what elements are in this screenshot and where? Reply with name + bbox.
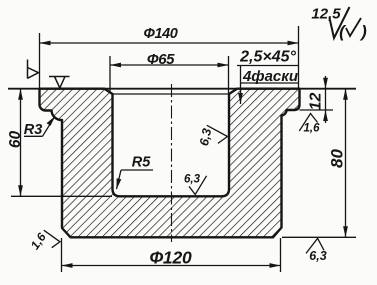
svg-text:Ф140: Ф140 [144, 26, 178, 42]
dim 80 line [345, 89, 347, 238]
dim Ф140 extension left [39, 33, 41, 88]
svg-text:80: 80 [328, 149, 347, 168]
dim 80 bottom extension [282, 236, 356, 238]
radius note R5 leader [117, 170, 122, 189]
radius note R5 arrow [117, 178, 122, 189]
roughness 6,3 on recess bottom: check [189, 176, 207, 195]
roughness 6,3 bottom-right: check [306, 238, 324, 253]
dim 12 extension (flange underside) [300, 109, 334, 111]
chamfer note leader arrow [238, 93, 243, 104]
dim 80 arrow bottom [343, 226, 348, 237]
roughness 1,6 bottom-left chamfer: check [44, 230, 60, 248]
dim Ф65 line [110, 64, 229, 66]
roughness 1,6 under flange right: check [299, 114, 317, 132]
dim 60 arrow top [18, 89, 23, 100]
bore chamfer edge line [113, 93, 230, 95]
dim Ф140 arrow left [40, 41, 51, 46]
svg-text:6,3: 6,3 [309, 249, 326, 263]
centerline (axis) [171, 84, 173, 242]
svg-text:1,6: 1,6 [304, 123, 321, 135]
chamfer note underline [241, 82, 299, 84]
radius note R3 arrow [47, 116, 56, 126]
dim Ф120 extension left [61, 238, 63, 272]
dim 60 line [20, 89, 22, 197]
roughness 6,3 on bore wall: check [207, 125, 228, 143]
svg-text:6,3: 6,3 [197, 127, 214, 147]
section body (hatched cup cross-section) [40, 89, 300, 238]
svg-text:R3: R3 [24, 122, 43, 138]
svg-text:): ) [359, 22, 367, 41]
dim Ф65 extension right [228, 56, 230, 94]
recess bottom extension line (60 dim) [11, 195, 112, 197]
radius note R3 shelf [24, 135, 43, 137]
dim 12 line [325, 76, 327, 123]
dim Ф120 line [62, 265, 281, 267]
dim Ф140 arrow right [288, 41, 299, 46]
svg-text:6,3: 6,3 [184, 173, 201, 185]
svg-text:60: 60 [7, 131, 24, 149]
dim Ф120 arrow left [62, 263, 73, 268]
radius note R3 leader [43, 118, 55, 137]
radius note R5 shelf [121, 169, 153, 171]
svg-text:(: ( [339, 22, 347, 41]
chamfer note leader [240, 66, 242, 105]
top surface line (with extensions both sides) [8, 88, 356, 90]
dim 12 arrow top (outside, pointing down) [323, 78, 328, 89]
svg-text:R5: R5 [132, 155, 151, 171]
dim 80 arrow top [343, 89, 348, 100]
svg-text:12: 12 [308, 93, 325, 111]
dim 12 arrow bottom (outside, pointing up) [323, 110, 328, 121]
svg-text:2,5×45°: 2,5×45° [239, 49, 296, 66]
dim Ф140 extension right [298, 26, 300, 88]
dim Ф65 extension left [109, 56, 111, 93]
svg-text:Ф65: Ф65 [147, 51, 175, 68]
svg-text:Ф120: Ф120 [149, 247, 192, 267]
roughness symbol on top surface (triangle) [49, 77, 70, 89]
chamfer note shelf [237, 65, 298, 67]
roughness small check [346, 18, 361, 36]
dim Ф120 arrow right [270, 263, 281, 268]
svg-text:1,6: 1,6 [28, 230, 49, 252]
dim Ф120 extension right [280, 238, 282, 272]
roughness symbol on left extension (rotated triangle) [28, 60, 39, 79]
dim Ф65 arrow right [218, 63, 229, 68]
dim Ф65 arrow left [110, 63, 121, 68]
dim Ф140 line [40, 42, 299, 44]
svg-text:12,5: 12,5 [311, 6, 341, 23]
dim 60 arrow bottom [18, 185, 23, 196]
roughness main check mark [330, 7, 350, 38]
